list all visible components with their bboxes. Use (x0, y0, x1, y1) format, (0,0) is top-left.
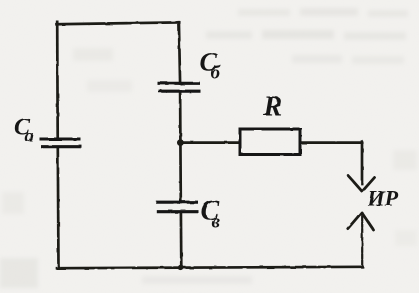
resistor R body (240, 129, 300, 155)
capacitor Cb plates (158, 82, 201, 85)
label Ca (14, 115, 34, 146)
svg-text:а: а (25, 126, 34, 146)
wire left lower segment (56, 148, 59, 269)
label Cb (200, 48, 222, 84)
up arrow stem to bottom wire (361, 216, 363, 267)
capacitor Ca plates (40, 137, 81, 140)
wire top (left branch to middle branch) (57, 22, 180, 24)
wire right vertical down to gap (361, 142, 364, 184)
svg-text:R: R (263, 92, 283, 123)
wire bottom (left to right) (57, 267, 363, 268)
wire to resistor (node to R) (180, 141, 240, 144)
up arrow tip and wings (348, 213, 362, 229)
junction node at bottom wire (178, 265, 184, 271)
wire middle lower segment (180, 212, 183, 268)
down arrowhead (349, 176, 363, 191)
svg-text:б: б (211, 63, 222, 84)
wire middle upper segment (179, 22, 180, 83)
capacitor Cv plates (156, 201, 198, 204)
wire left upper segment (56, 22, 59, 138)
spark gap IR arrows (348, 176, 375, 267)
junction node at R tap (177, 139, 184, 146)
wire resistor to right corner (300, 141, 362, 144)
svg-text:ИР: ИР (367, 186, 399, 211)
svg-text:в: в (212, 212, 221, 233)
label Cv (201, 196, 221, 233)
wire middle center segment (179, 91, 182, 203)
